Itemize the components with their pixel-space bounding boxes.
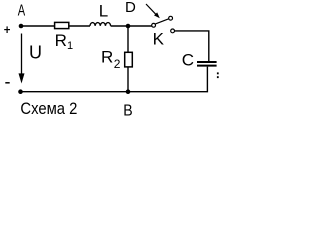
switch K common terminal bbox=[152, 23, 156, 27]
source minus terminal bbox=[5, 82, 9, 84]
svg-text:R: R bbox=[55, 31, 67, 50]
svg-text:1: 1 bbox=[67, 40, 73, 52]
wire L to D bbox=[111, 25, 128, 27]
voltage arrow U bbox=[19, 34, 25, 84]
wire R2 branch top bbox=[127, 26, 129, 52]
switch K lever bbox=[155, 19, 168, 24]
svg-text:D: D bbox=[125, 0, 136, 16]
resistor R1 bbox=[55, 22, 69, 28]
switch K fixed contact bbox=[171, 29, 175, 33]
svg-text:2: 2 bbox=[114, 57, 121, 71]
node A bbox=[19, 24, 24, 29]
svg-text:B: B bbox=[123, 103, 132, 120]
svg-text:L: L bbox=[99, 1, 108, 20]
svg-text:Схема 2: Схема 2 bbox=[20, 100, 77, 118]
svg-text:C: C bbox=[182, 50, 194, 69]
stray colon artifact bbox=[217, 72, 219, 78]
svg-text:A: A bbox=[18, 3, 26, 20]
terminal node bottom-left bbox=[18, 89, 23, 94]
switch K open contact bbox=[169, 16, 173, 20]
node B bbox=[126, 89, 131, 94]
wire D to switch K bbox=[128, 25, 152, 27]
svg-text:R: R bbox=[101, 48, 113, 67]
source plus terminal bbox=[4, 26, 10, 33]
wire C to bottom rail bbox=[21, 67, 208, 92]
label R2 bbox=[101, 48, 121, 72]
wire R2 branch bottom bbox=[127, 67, 129, 92]
resistor R2 bbox=[125, 52, 133, 67]
capacitor C bbox=[197, 62, 217, 66]
svg-text:K: K bbox=[153, 29, 165, 48]
node D bbox=[126, 24, 131, 29]
wire A to R1 bbox=[21, 25, 55, 27]
wire R1 to L bbox=[70, 25, 91, 27]
label R1 bbox=[55, 31, 74, 52]
inductor L bbox=[90, 23, 111, 26]
wire switch to right rail bbox=[175, 31, 209, 61]
switch K actuation arrow bbox=[146, 4, 160, 18]
svg-text:U: U bbox=[29, 43, 42, 63]
